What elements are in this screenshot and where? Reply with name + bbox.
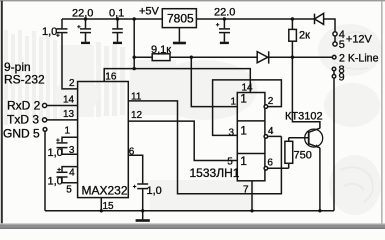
svg-text:1,0: 1,0 xyxy=(48,176,63,188)
svg-text:+5V: +5V xyxy=(139,6,160,18)
inverter output circle (pin 6) xyxy=(264,167,268,171)
svg-text:750: 750 xyxy=(294,150,312,162)
wire: MAX232 pin 5 xyxy=(62,178,78,183)
wire: MAX232 pin 4 xyxy=(62,167,78,172)
wire: C1 to MAX232 pin 2 xyxy=(62,33,78,89)
svg-text:1: 1 xyxy=(240,154,247,168)
wire: +5V top rail (7805 output side) xyxy=(62,18,162,20)
faint watermark background xyxy=(4,24,382,215)
plus (C2) xyxy=(77,25,80,28)
RS-232 connector pin TxD (circle) xyxy=(43,118,47,122)
wire: link pins 8-9 xyxy=(333,71,335,75)
capacitor C5 1,0 (pin 6 V-) xyxy=(137,183,148,185)
wire: D2 cathode to connector pin 2 (K-Line) xyxy=(269,56,333,58)
emitter arrow of Q1 xyxy=(315,144,319,147)
svg-text:6: 6 xyxy=(267,158,273,169)
wire: emitter of Q1 to ground bus xyxy=(319,148,321,211)
ground bus (bottom) xyxy=(45,210,334,212)
ground symbol on bus xyxy=(142,211,144,220)
svg-text:RS-232: RS-232 xyxy=(4,73,45,87)
svg-text:1: 1 xyxy=(65,126,71,137)
svg-text:11: 11 xyxy=(131,92,142,103)
node: bus / pin 7 xyxy=(250,209,253,212)
capacitor C4 22.0 (on +12V rail) xyxy=(223,19,225,28)
wire: link pins 4-5 xyxy=(334,36,336,42)
wire: collector of Q1 to K-line node xyxy=(292,57,320,128)
diode D1 (+12V input) xyxy=(315,13,324,24)
wire: bus up to connector pins 8/9 xyxy=(333,78,335,211)
svg-text:КТ3102: КТ3102 xyxy=(285,111,323,123)
svg-text:5: 5 xyxy=(66,185,72,196)
capacitor C6 1,0 (pins 1-3) xyxy=(57,142,68,144)
svg-text:2: 2 xyxy=(69,78,75,89)
node: rail-C2 xyxy=(84,17,87,20)
capacitor C1 1,0 (on +5V rail, to MAX232 pin 2) xyxy=(61,19,63,28)
node: rail-R2 xyxy=(291,17,294,20)
resistor R1 9,1k xyxy=(134,56,152,58)
ground (C2) xyxy=(81,42,90,44)
node: rail-C3 xyxy=(116,17,119,20)
wire: MAX232 pin 11 to DD2 route xyxy=(128,101,281,194)
svg-text:+12V: +12V xyxy=(346,34,373,46)
wire: +5V line to MAX232 pin 16 and DD2 pin 14 xyxy=(104,69,250,93)
node A: +5V / R1 xyxy=(133,56,136,59)
wire: MAX232 pin 15 to ground bus xyxy=(100,198,102,211)
svg-text:2 K-Line: 2 K-Line xyxy=(339,52,379,64)
svg-text:5: 5 xyxy=(227,157,233,168)
ground (C3) xyxy=(113,42,122,44)
svg-text:1: 1 xyxy=(231,97,237,108)
wire: DD2 output 6 to resistor R3 xyxy=(268,167,289,169)
svg-text:4: 4 xyxy=(69,168,75,179)
node: +5V / logic supply xyxy=(133,67,136,70)
svg-text:13: 13 xyxy=(63,109,75,120)
svg-text:1: 1 xyxy=(240,124,247,138)
wire: GND 5 down to ground bus xyxy=(44,131,46,211)
inverter output circle (pin 2) xyxy=(264,105,268,109)
RS-232 connector pin RxD (circle) xyxy=(43,103,47,107)
node: rail-C4 xyxy=(223,17,226,20)
wire: TxD to MAX232 pin 13 xyxy=(47,119,78,121)
connector pin 2 circle (K-Line) xyxy=(332,55,336,59)
ground (7805) xyxy=(173,42,186,45)
inverter output circle (pin 4) xyxy=(264,135,268,139)
wire: K-line rail from node B to diode D2 xyxy=(191,56,257,58)
capacitor C7 1,0 (pins 4-5) xyxy=(57,171,68,173)
svg-text:22,0: 22,0 xyxy=(72,8,93,20)
svg-text:9,1к: 9,1к xyxy=(151,44,171,56)
node: bus / pin 15 xyxy=(100,209,103,212)
svg-text:1,0: 1,0 xyxy=(48,147,63,159)
svg-text:2к: 2к xyxy=(299,30,310,42)
capacitor C2 22,0 xyxy=(85,19,87,28)
plus (C4) xyxy=(216,23,219,26)
svg-text:1: 1 xyxy=(240,92,247,106)
wire: MAX232 pin 1 xyxy=(62,137,78,142)
connector pin 9 circle xyxy=(332,75,336,79)
svg-text:TxD 3: TxD 3 xyxy=(7,113,39,127)
svg-text:15: 15 xyxy=(103,201,115,212)
wire: node B down to DD2 pin 1 input xyxy=(191,57,237,106)
plus (C7) xyxy=(57,168,60,171)
wire: base wire to Q1 xyxy=(289,137,309,139)
svg-text:3: 3 xyxy=(69,145,75,156)
resistor R3 750 (base resistor) xyxy=(288,163,290,168)
wire: +5V drop to 9,1k rail and logic supply xyxy=(133,19,135,69)
wire: MAX232 pin 12 to DD2 pin 5 input xyxy=(128,121,237,160)
svg-text:7805: 7805 xyxy=(167,12,194,26)
connector pin 8 circle xyxy=(332,67,336,71)
IC U1 MAX232 body xyxy=(78,82,129,198)
svg-text:16: 16 xyxy=(105,72,117,83)
svg-text:1533ЛН1: 1533ЛН1 xyxy=(190,166,240,180)
resistor R2 2k (K-line pull-up to +12V) xyxy=(291,19,293,29)
svg-text:5: 5 xyxy=(339,39,345,51)
svg-text:MAX232: MAX232 xyxy=(81,184,127,198)
ground (C4) xyxy=(220,42,229,44)
node: rail-+5V drop xyxy=(133,17,136,20)
wire: DD2 output 4 xyxy=(268,135,282,137)
svg-text:6: 6 xyxy=(129,147,135,158)
svg-text:RxD 2: RxD 2 xyxy=(7,99,41,113)
plus (C5) xyxy=(133,185,136,188)
node: bus / emitter xyxy=(318,209,321,212)
connector pin 4 circle xyxy=(333,32,337,36)
svg-text:4: 4 xyxy=(268,126,274,137)
transistor Q1 KT3102 xyxy=(305,129,323,147)
svg-text:22.0: 22.0 xyxy=(214,7,235,19)
wire: DD2 pin 7 to ground bus xyxy=(251,181,253,211)
svg-text:9: 9 xyxy=(339,72,345,84)
svg-text:2: 2 xyxy=(268,96,274,107)
wire: C5 to ground bus xyxy=(142,189,144,211)
IC DD2 1533LN1 cells xyxy=(237,93,265,181)
svg-text:1,0: 1,0 xyxy=(147,185,162,197)
svg-text:12: 12 xyxy=(131,110,143,121)
voltage regulator U2 7805 xyxy=(162,9,196,28)
wire: DD2 output 2 to inverter 2 input (pin 3) xyxy=(213,80,282,135)
plus (C6) xyxy=(56,138,59,141)
wire: RxD to MAX232 pin 14 xyxy=(47,105,78,107)
connector pin 5 circle xyxy=(333,42,337,46)
RS-232 connector pin GND (circle) xyxy=(43,127,47,131)
wire: MAX232 pin 6 to capacitor C5 xyxy=(128,155,142,183)
svg-text:14: 14 xyxy=(63,95,75,106)
svg-text:0,1: 0,1 xyxy=(109,8,124,20)
node: bus / C5 / ground xyxy=(141,209,144,212)
polarity plus signs xyxy=(56,23,219,188)
plus (C1) xyxy=(56,34,59,37)
svg-text:7: 7 xyxy=(243,185,249,196)
svg-text:3: 3 xyxy=(229,128,235,139)
node B: R1 / K-line / pin 1 xyxy=(190,56,193,59)
wire: rail from diode D1 to connector pin 4 xyxy=(324,19,335,32)
wire: +12V top rail (7805 input side) xyxy=(196,18,314,20)
capacitor C3 0,1 xyxy=(117,19,119,28)
wire: MAX232 pin 3 xyxy=(62,148,78,154)
svg-text:GND 5: GND 5 xyxy=(3,127,40,141)
svg-text:1,0: 1,0 xyxy=(42,26,57,38)
diode D2 (to K-line) xyxy=(257,52,268,63)
node: K-line / R2 / collector xyxy=(291,56,294,59)
